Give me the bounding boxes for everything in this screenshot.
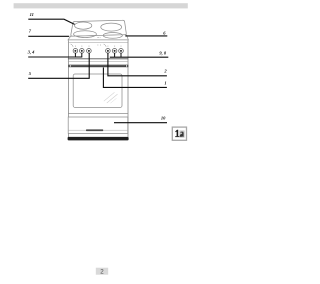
svg-text:2: 2 [100, 268, 104, 275]
glyph a [180, 132, 184, 137]
svg-text:5: 5 [29, 71, 32, 76]
svg-text:10: 10 [161, 116, 166, 121]
figure tag 1a [172, 127, 186, 140]
burner back-left [75, 22, 92, 29]
cooktop top surface [71, 20, 126, 36]
drawer [68, 117, 128, 133]
panel curl marks [104, 44, 107, 47]
svg-text:2: 2 [163, 69, 167, 74]
control panel top edge [68, 42, 128, 44]
window shine lines [104, 92, 115, 101]
svg-text:11: 11 [30, 12, 34, 17]
stove body sides [67, 40, 69, 137]
leader 7 [28, 35, 69, 37]
svg-text:7: 7 [29, 28, 32, 33]
leader 3,4 [28, 56, 82, 58]
svg-text:6: 6 [163, 31, 166, 36]
knob 5 [112, 49, 117, 54]
cooktop center specks [97, 36, 99, 39]
leader 2 [108, 53, 167, 76]
burner front-left [74, 31, 97, 38]
knob 3 [87, 49, 92, 54]
knob 2 [80, 49, 85, 54]
knob 6 [119, 49, 124, 54]
cooktop front lip [68, 35, 128, 40]
burner back-right [101, 23, 122, 31]
oven door handle [69, 65, 129, 68]
svg-text:9, 8: 9, 8 [159, 51, 167, 56]
labels left [27, 12, 168, 121]
knob marks above [75, 45, 122, 47]
page number [96, 268, 108, 275]
burner front-right [103, 33, 122, 39]
oven door window [73, 74, 122, 107]
leader 6 [125, 35, 167, 37]
header bar [14, 3, 188, 8]
knob 4 [106, 49, 111, 54]
leader 9,8 [114, 53, 116, 57]
base bar [68, 137, 129, 141]
svg-text:1: 1 [164, 80, 166, 85]
leader 11 [28, 19, 74, 24]
control panel bottom edges [68, 58, 128, 60]
leader 5 [28, 53, 89, 78]
knob 1 [73, 49, 78, 54]
drawer groove [68, 129, 128, 131]
leader 10 [114, 122, 167, 124]
oven door bottom edge [68, 113, 128, 115]
svg-text:3, 4: 3, 4 [27, 50, 35, 55]
leader 1 [103, 68, 166, 88]
drawer handle slot [86, 129, 103, 131]
glyph 1 [175, 130, 178, 137]
